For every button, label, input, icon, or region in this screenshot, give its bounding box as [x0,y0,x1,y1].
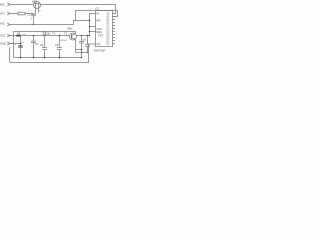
node [81,49,82,50]
node [20,43,22,45]
wire [89,44,96,53]
svg-text:IN: IN [97,12,100,16]
node [89,20,90,21]
svg-text:VCC: VCC [0,34,6,38]
svg-text:IC1: IC1 [95,7,100,11]
node [89,31,90,32]
svg-text:C1: C1 [27,13,31,17]
wire [14,32,76,34]
wire [33,16,35,25]
svg-text:C3: C3 [35,42,39,46]
node [20,57,22,59]
wire [13,32,15,58]
node [89,26,90,27]
svg-text:100n: 100n [67,26,73,30]
wire [44,36,46,48]
wire [59,36,61,48]
wire stub [90,26,96,28]
IC left pin labels [97,12,104,46]
node [59,57,61,59]
wire [33,43,35,58]
wire [10,21,90,25]
node [44,57,46,59]
svg-text:GN: GN [97,42,101,46]
svg-text:TDA7010T: TDA7010T [94,49,107,52]
node [33,35,35,37]
wire [41,5,116,14]
wire [10,43,21,45]
wire [25,13,34,16]
node [89,35,91,37]
wire [76,49,82,51]
capacitor C5 [55,43,62,50]
wire [10,13,18,15]
node [33,57,35,59]
port J4 [0,34,10,38]
svg-text:C5: C5 [55,43,59,47]
svg-text:FLT: FLT [99,33,104,37]
wire [20,48,22,58]
wire [59,50,61,58]
svg-text:MU: MU [97,19,101,23]
wire [76,52,89,54]
svg-text:C4: C4 [40,43,44,47]
capacitor C4 [40,43,47,50]
wire [90,14,96,36]
resistor R2 [43,31,51,35]
ground return wire [10,47,89,63]
svg-text:BC547: BC547 [61,40,68,42]
wire stub [90,31,96,33]
node [81,35,83,37]
wire [20,36,22,46]
node [81,57,83,59]
svg-text:GND: GND [0,42,6,46]
resistor R1 [18,12,25,15]
transistor T1 [64,31,77,40]
svg-text:MIC: MIC [0,3,5,7]
node [87,52,89,54]
port J5 [0,42,10,46]
wire [10,35,70,37]
wire emitter [74,39,77,52]
port J2 [0,12,10,16]
microphone MK1 [32,0,40,14]
port J1 [0,3,10,7]
capacitor C1 [27,13,36,17]
svg-text:2k2: 2k2 [46,31,51,35]
capacitor C7 [85,36,90,47]
svg-text:C6: C6 [83,38,87,42]
node [59,35,61,37]
wire [77,35,90,37]
svg-text:AF1: AF1 [0,12,5,16]
capacitor C3 [31,36,39,47]
wire [76,11,118,21]
ground bus [14,57,82,59]
node [81,52,83,54]
IC right pin labels [107,12,111,45]
wire [87,47,89,53]
svg-text:REG: REG [97,30,103,34]
node [87,35,89,37]
capacitor C2 [14,42,24,47]
capacitor C6 [79,36,86,44]
wire [81,43,83,58]
ferrite bead FB1 [17,35,20,37]
wire [10,4,34,6]
IC pin stubs right [113,14,116,44]
wire [44,50,46,58]
IC U1 [95,7,113,47]
port J3 [0,22,10,26]
node [16,35,18,37]
node [44,35,46,37]
node [33,24,35,26]
svg-text:AF2: AF2 [0,22,5,26]
